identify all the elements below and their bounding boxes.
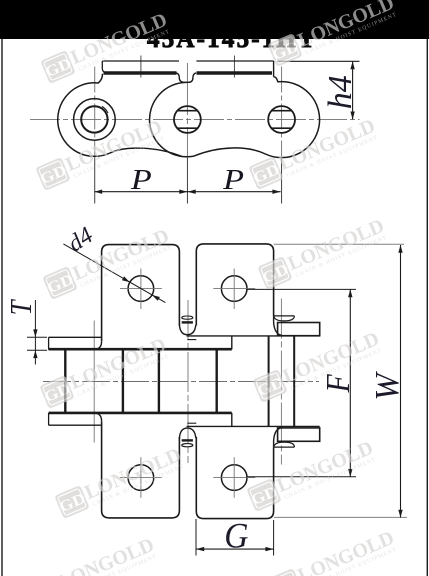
- U notch between flange strips at pin2: [176, 73, 196, 82]
- watermark 9: [54, 444, 186, 521]
- tab bottom-right: [196, 437, 273, 519]
- svg-text:W: W: [368, 370, 406, 400]
- hole in tab BL: [128, 465, 154, 491]
- pin3 head top: dish: [274, 316, 295, 321]
- tab bottom-left: [102, 421, 180, 518]
- watermark 1: [40, 9, 172, 86]
- plate strip bottom: right segment end cap: [231, 413, 233, 426]
- svg-text:h4: h4: [322, 75, 359, 109]
- pin2 head bottom: ellipse: [182, 444, 193, 447]
- pin2 head top: ellipse: [182, 316, 193, 319]
- fold line right of pin2 top: [187, 339, 196, 341]
- watermark 7: [39, 334, 171, 411]
- attachment flange strip left (bent plate top, side view): [102, 61, 179, 73]
- hole in tab TL: [128, 276, 154, 302]
- tab top-left (attachment flange): [102, 245, 180, 342]
- tab TR right edge fold fillet to bar: [274, 316, 282, 336]
- plate strip top: left end cap: [48, 337, 50, 349]
- outer plate bar right bottom: [278, 428, 320, 441]
- hole in tab BR: [221, 465, 247, 491]
- plate contour: bottom waist pin2-pin3 and arc around pin3 up to flange: [194, 77, 320, 158]
- svg-text:P: P: [222, 164, 244, 195]
- watermark 8: [252, 328, 384, 405]
- watermark 6: [257, 215, 389, 292]
- watermark 2: [267, 0, 399, 68]
- pin2 head top: chord: [182, 321, 193, 323]
- plate strip edge-on bottom: inner thick line: [49, 412, 232, 415]
- outer plate bar right top: [278, 323, 320, 336]
- pin3 head bottom: dish: [274, 442, 295, 447]
- dimension G: [196, 519, 274, 556]
- pin3 head top: line: [274, 315, 295, 317]
- plate strip edge-on top: outer line: [49, 336, 102, 338]
- pin2 head bottom: chord: [182, 439, 193, 441]
- pin2 chords: [177, 110, 197, 112]
- plate strip bottom: left end cap: [48, 413, 50, 425]
- svg-text:G: G: [224, 515, 248, 555]
- watermark 5: [42, 225, 174, 302]
- frame border left: [1, 39, 3, 576]
- bushing circle pin1 inner: [81, 106, 107, 132]
- hole in tab TR: [221, 276, 247, 302]
- centerline hole mid-pitch right: [233, 56, 235, 78]
- pin2 head bottom: U cap: [179, 428, 195, 439]
- pin2 centerline: [187, 300, 189, 463]
- centerline pin2: [186, 63, 188, 158]
- centerline hole mid-pitch left: [140, 56, 142, 78]
- pin3 chords: [272, 110, 292, 112]
- plate contour: link1 attachment plate around pin1 + bottom waist: [58, 74, 182, 157]
- centerline pin3: [281, 67, 283, 159]
- plate contour: link2 plate arc around pin2 (from U notch, around west to south): [150, 82, 194, 156]
- bushing circle pin2: [174, 106, 201, 133]
- chain axis centerline: [43, 381, 319, 383]
- svg-text:P: P: [130, 164, 152, 195]
- watermark 4: [248, 115, 380, 192]
- hole TL centerlines: [140, 269, 142, 310]
- tab top-right: [196, 244, 273, 326]
- bushing circle pin3: [268, 106, 295, 133]
- dimension F: [246, 289, 356, 476]
- centerline horizontal chain axis: [30, 118, 360, 120]
- roller pin1 plan edges: [64, 350, 66, 412]
- plate strip bottom: right segment bottom line: [187, 425, 320, 427]
- watermark 12: [27, 534, 159, 576]
- roller circle pin1 outer: [74, 99, 116, 141]
- tab BL top-left fold fillet: [95, 413, 102, 421]
- dimension W: [274, 244, 407, 517]
- dimension h4: [277, 61, 360, 119]
- dimension d4 leader: [63, 244, 165, 303]
- small arc detail pin1: [102, 106, 108, 113]
- hole BL centerlines: [140, 457, 142, 498]
- pin3 centerline: [280, 299, 282, 465]
- frame border right: [426, 39, 428, 576]
- fold line right of pin2 bottom: [187, 422, 196, 424]
- tab BR right edge fold fillet to bar: [274, 428, 282, 448]
- centerline pin1: [94, 67, 96, 159]
- pin2 head top: U cap: [179, 324, 195, 335]
- dimension T: [27, 300, 47, 365]
- title text (mostly hidden behind black bar): [147, 26, 317, 53]
- plate strip top: inner thick line: [49, 348, 232, 351]
- dimension P (left pitch): [94, 190, 280, 194]
- roller pin2 plan edges: [158, 350, 160, 412]
- plate strip top: right segment top line: [187, 335, 320, 337]
- svg-text:T: T: [4, 299, 38, 316]
- plate strip top: right segment end cap: [231, 336, 233, 349]
- hole TR centerlines: [233, 269, 235, 310]
- watermark 10: [246, 437, 378, 514]
- bushing pin3 plan edges: [268, 337, 270, 427]
- plate strip bottom: outer line: [49, 424, 102, 426]
- attachment flange strip right (side view): [196, 61, 273, 77]
- tab TL bottom-left fold fillet: [95, 341, 102, 349]
- black header bar: [0, 0, 429, 39]
- watermark 3: [35, 116, 167, 193]
- pin1 centerline: [93, 321, 95, 443]
- hole BR centerlines: [233, 457, 235, 498]
- watermark 11: [267, 527, 399, 576]
- pin3 head bottom: line: [274, 446, 295, 448]
